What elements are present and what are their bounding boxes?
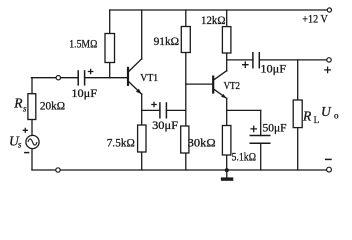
svg-text:s: s — [18, 140, 22, 150]
svg-text:o: o — [334, 110, 339, 120]
svg-text:20kΩ: 20kΩ — [40, 100, 65, 112]
svg-text:L: L — [314, 115, 320, 125]
svg-text:1.5MΩ: 1.5MΩ — [69, 39, 97, 51]
svg-text:30kΩ: 30kΩ — [188, 137, 216, 149]
svg-text:R: R — [302, 109, 312, 124]
svg-text:U: U — [321, 104, 332, 119]
svg-text:50μF: 50μF — [263, 123, 287, 135]
svg-text:10μF: 10μF — [260, 63, 286, 75]
svg-text:VT2: VT2 — [224, 81, 240, 92]
svg-text:+12 V: +12 V — [302, 14, 328, 26]
svg-text:s: s — [23, 104, 27, 114]
svg-text:R: R — [13, 95, 23, 110]
svg-text:12kΩ: 12kΩ — [201, 15, 226, 27]
svg-text:91kΩ: 91kΩ — [154, 36, 180, 48]
svg-text:VT1: VT1 — [140, 73, 158, 84]
svg-text:5.1kΩ: 5.1kΩ — [232, 151, 257, 163]
svg-text:10μF: 10μF — [71, 88, 97, 100]
svg-text:30μF: 30μF — [152, 120, 178, 132]
svg-text:7.5kΩ: 7.5kΩ — [107, 137, 135, 149]
